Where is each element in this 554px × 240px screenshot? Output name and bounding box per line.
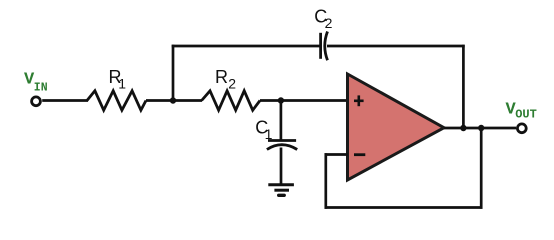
svg-text:IN: IN [34,82,48,95]
wire top feedback left segment [172,45,320,48]
wire node B down to C1 [280,101,283,140]
wire op-amp minus input [325,153,349,156]
op-amp plus sign [354,95,364,106]
wire R2 to op-amp + input [260,99,348,102]
node C junction (output/top feedback) [460,125,466,131]
node D junction (output/bottom feedback) [478,125,484,131]
wire C1 to ground [280,148,283,185]
wire feedback bottom [325,206,483,209]
svg-text:2: 2 [325,15,333,31]
wire feedback right vertical [480,128,483,209]
svg-text:1: 1 [118,76,126,92]
capacitor C2 [321,32,328,61]
resistor R1 [87,91,146,110]
svg-text:R: R [215,67,228,87]
ground [268,185,294,196]
node A junction (R1/R2/C2) [170,97,176,103]
node VOUT terminal [517,124,526,133]
wire top feedback right segment [327,45,465,48]
wire R1 to node A [146,99,202,102]
wire down from top feedback to output node [462,45,465,128]
label C1 [255,118,272,143]
node VIN terminal [32,97,41,106]
svg-text:OUT: OUT [515,108,537,122]
op-amp minus sign [354,153,365,156]
capacitor C1 [267,141,297,150]
wire op-amp output to VOUT [444,127,516,130]
node B junction (R2/C1/op-amp) [278,97,284,103]
wire feedback left vertical [324,153,327,209]
op-amp U1 [348,74,445,180]
label VIN [24,71,48,95]
label R2 [215,67,236,92]
label VOUT [506,101,537,122]
wire VIN to R1 [42,99,88,102]
wire node A up to top feedback [172,45,175,101]
svg-text:2: 2 [228,76,236,92]
label R1 [109,67,127,92]
resistor R2 [202,91,260,110]
label C2 [314,7,332,32]
